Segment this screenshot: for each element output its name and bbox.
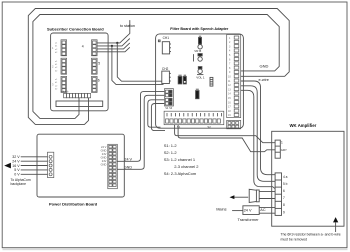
Filter Board with Speech Adapter <box>156 27 244 128</box>
junction dot on station wire 2 <box>111 45 113 47</box>
wire: riser into filter connector pin 4 <box>151 104 165 131</box>
legend switch settings <box>164 143 200 176</box>
svg-text:24 V: 24 V <box>244 208 252 212</box>
svg-text:S4: 2-3 AlphaCom: S4: 2-3 AlphaCom <box>164 171 197 176</box>
svg-text:GND: GND <box>124 166 133 170</box>
svg-text:CH1: CH1 <box>163 36 170 40</box>
svg-text:must be removed: must be removed <box>281 237 308 241</box>
wire: riser into filter connector pin 3 <box>148 100 165 127</box>
connector strip group 1 (left column) <box>52 40 67 56</box>
wire: 24V from power board up into filter input connector <box>117 92 164 162</box>
svg-text:6: 6 <box>98 79 100 83</box>
svg-text:Filter Board with Speech Adapt: Filter Board with Speech Adapter <box>170 27 229 31</box>
filter input connector (left, 4 pins) <box>165 89 174 106</box>
trimmer VR B <box>194 36 202 53</box>
svg-text:VOL 1: VOL 1 <box>196 76 205 80</box>
speaker direction arrow <box>230 195 249 199</box>
svg-text:Subscriber Connection Board: Subscriber Connection Board <box>47 26 104 31</box>
capacitor single <box>196 89 199 99</box>
svg-text:GND: GND <box>101 156 107 160</box>
svg-text:16 V: 16 V <box>12 164 20 168</box>
trimmer VOL 1 <box>196 67 205 80</box>
wire: GND from power board up into filter input connector <box>117 95 164 169</box>
wire loop inner: subscriber a-wire around left/top/right to filter GND <box>33 15 279 119</box>
Subscriber Connection Board <box>47 26 108 110</box>
loudspeaker <box>249 189 275 202</box>
WK terminal strip pins 4a-9 <box>275 173 288 216</box>
svg-text:24 V: 24 V <box>124 158 132 162</box>
svg-text:Power Distribution Board: Power Distribution Board <box>49 201 98 206</box>
svg-text:0 V: 0 V <box>14 173 20 177</box>
filter to WK down-wire 3 (to pin 6 area) <box>241 90 275 188</box>
WK Amplifier <box>272 123 344 226</box>
svg-text:e-wire: e-wire <box>259 78 269 82</box>
svg-text:5 V: 5 V <box>14 168 20 172</box>
junction dot on station wire 1 <box>116 42 118 44</box>
connector strip group 3 (left column) <box>52 76 67 92</box>
power input connector (circles) <box>48 152 54 177</box>
transformer AC wires to pins 8,9 <box>259 207 275 213</box>
svg-text:4: 4 <box>82 45 84 49</box>
svg-text:8: 8 <box>283 203 285 207</box>
svg-text:S3: 1-2 channel 1: S3: 1-2 channel 1 <box>164 157 196 162</box>
svg-text:GND: GND <box>101 149 107 153</box>
supply voltage labels <box>12 155 20 177</box>
connector strip group 4 (right column, to station) <box>82 40 97 56</box>
note text: 6K9 resistor <box>281 232 341 241</box>
blank bar connector at subscriber board bottom <box>56 101 103 107</box>
relay CH1 <box>158 36 171 54</box>
resistor striped <box>210 77 213 86</box>
Transformer <box>238 206 266 222</box>
svg-text:S1: 1-2: S1: 1-2 <box>164 143 178 148</box>
filter to WK down-wire 2 (to pin 5b) <box>241 86 275 182</box>
svg-text:S2: 1-2: S2: 1-2 <box>164 150 178 155</box>
connector strip group 6 (right column) <box>92 76 100 92</box>
svg-text:24V: 24V <box>102 159 107 163</box>
tap wire B: station pair to CH2 b-wire <box>112 46 164 85</box>
wire: filter strip to WK amp pin 2 <box>178 125 275 152</box>
connector strip group 2 (left column) <box>52 58 67 74</box>
svg-text:7: 7 <box>283 196 285 200</box>
wire: filter strip to WK amp pin 1 <box>175 125 276 143</box>
relay CH2 <box>162 67 171 83</box>
WK input connector pins 1-2 <box>275 140 287 158</box>
capacitor pair <box>178 75 186 84</box>
arrow to AlphaCom backplane <box>4 163 31 186</box>
svg-text:VR B: VR B <box>194 49 201 53</box>
svg-text:S2: S2 <box>207 125 211 129</box>
label GND (power out) <box>124 166 133 170</box>
filter bottom edge connector strip <box>164 106 224 129</box>
svg-text:GND: GND <box>101 163 107 167</box>
svg-text:5: 5 <box>98 61 100 65</box>
backplane supply wires <box>21 157 48 175</box>
svg-text:Mains: Mains <box>216 207 226 212</box>
filter to WK down-wire 1 (to pin 4a) <box>241 81 275 175</box>
svg-text:32 V: 32 V <box>12 155 20 159</box>
power output connector (2 columns) <box>101 144 118 188</box>
trimmer mid <box>194 54 203 62</box>
svg-text:AC: AC <box>260 208 266 212</box>
mains feed wire <box>216 207 243 212</box>
Power Distribution Board <box>37 134 124 206</box>
svg-text:to station: to station <box>120 24 135 28</box>
note arrow inside WK amplifier <box>333 217 338 232</box>
svg-text:WK Amplifier: WK Amplifier <box>290 123 317 128</box>
svg-text:1: 1 <box>281 140 283 144</box>
svg-text:6: 6 <box>283 189 285 193</box>
svg-text:S1: S1 <box>177 125 181 129</box>
wire loop outer: subscriber b-wire around left/top/right to filter e-wire <box>28 9 289 125</box>
station wires from group 4 pins <box>97 20 130 52</box>
label e-wire <box>259 78 269 82</box>
label GND (filter wire) <box>260 63 269 68</box>
tap wire A: station pair to CH2 a-wire <box>117 43 161 81</box>
svg-text:4 a: 4 a <box>283 175 288 179</box>
svg-text:9: 9 <box>283 210 285 214</box>
filter lower-right pin group <box>227 120 241 128</box>
svg-text:24V: 24V <box>102 152 107 156</box>
svg-text:backplane: backplane <box>11 182 27 186</box>
svg-text:a b a b: a b a b <box>61 91 69 94</box>
svg-text:2-3 channel 2: 2-3 channel 2 <box>174 164 199 169</box>
svg-text:The 6K9 resistor between a- an: The 6K9 resistor between a- and b-wire <box>281 232 341 236</box>
svg-text:GRY: GRY <box>281 148 287 152</box>
label 24 V (power out) <box>124 158 132 162</box>
svg-text:S4 S3: S4 S3 <box>165 106 173 110</box>
svg-text:GND: GND <box>260 63 269 68</box>
bottom pin row of subscriber board <box>61 91 91 98</box>
filter right edge connector (station side) <box>227 35 241 118</box>
svg-text:24 V: 24 V <box>101 145 107 149</box>
svg-text:5 b: 5 b <box>283 182 288 186</box>
label: to station <box>120 24 135 28</box>
svg-text:Transformer: Transformer <box>238 217 260 222</box>
svg-text:CH2: CH2 <box>162 67 169 71</box>
connector strip group 5 (right column) <box>92 58 101 74</box>
